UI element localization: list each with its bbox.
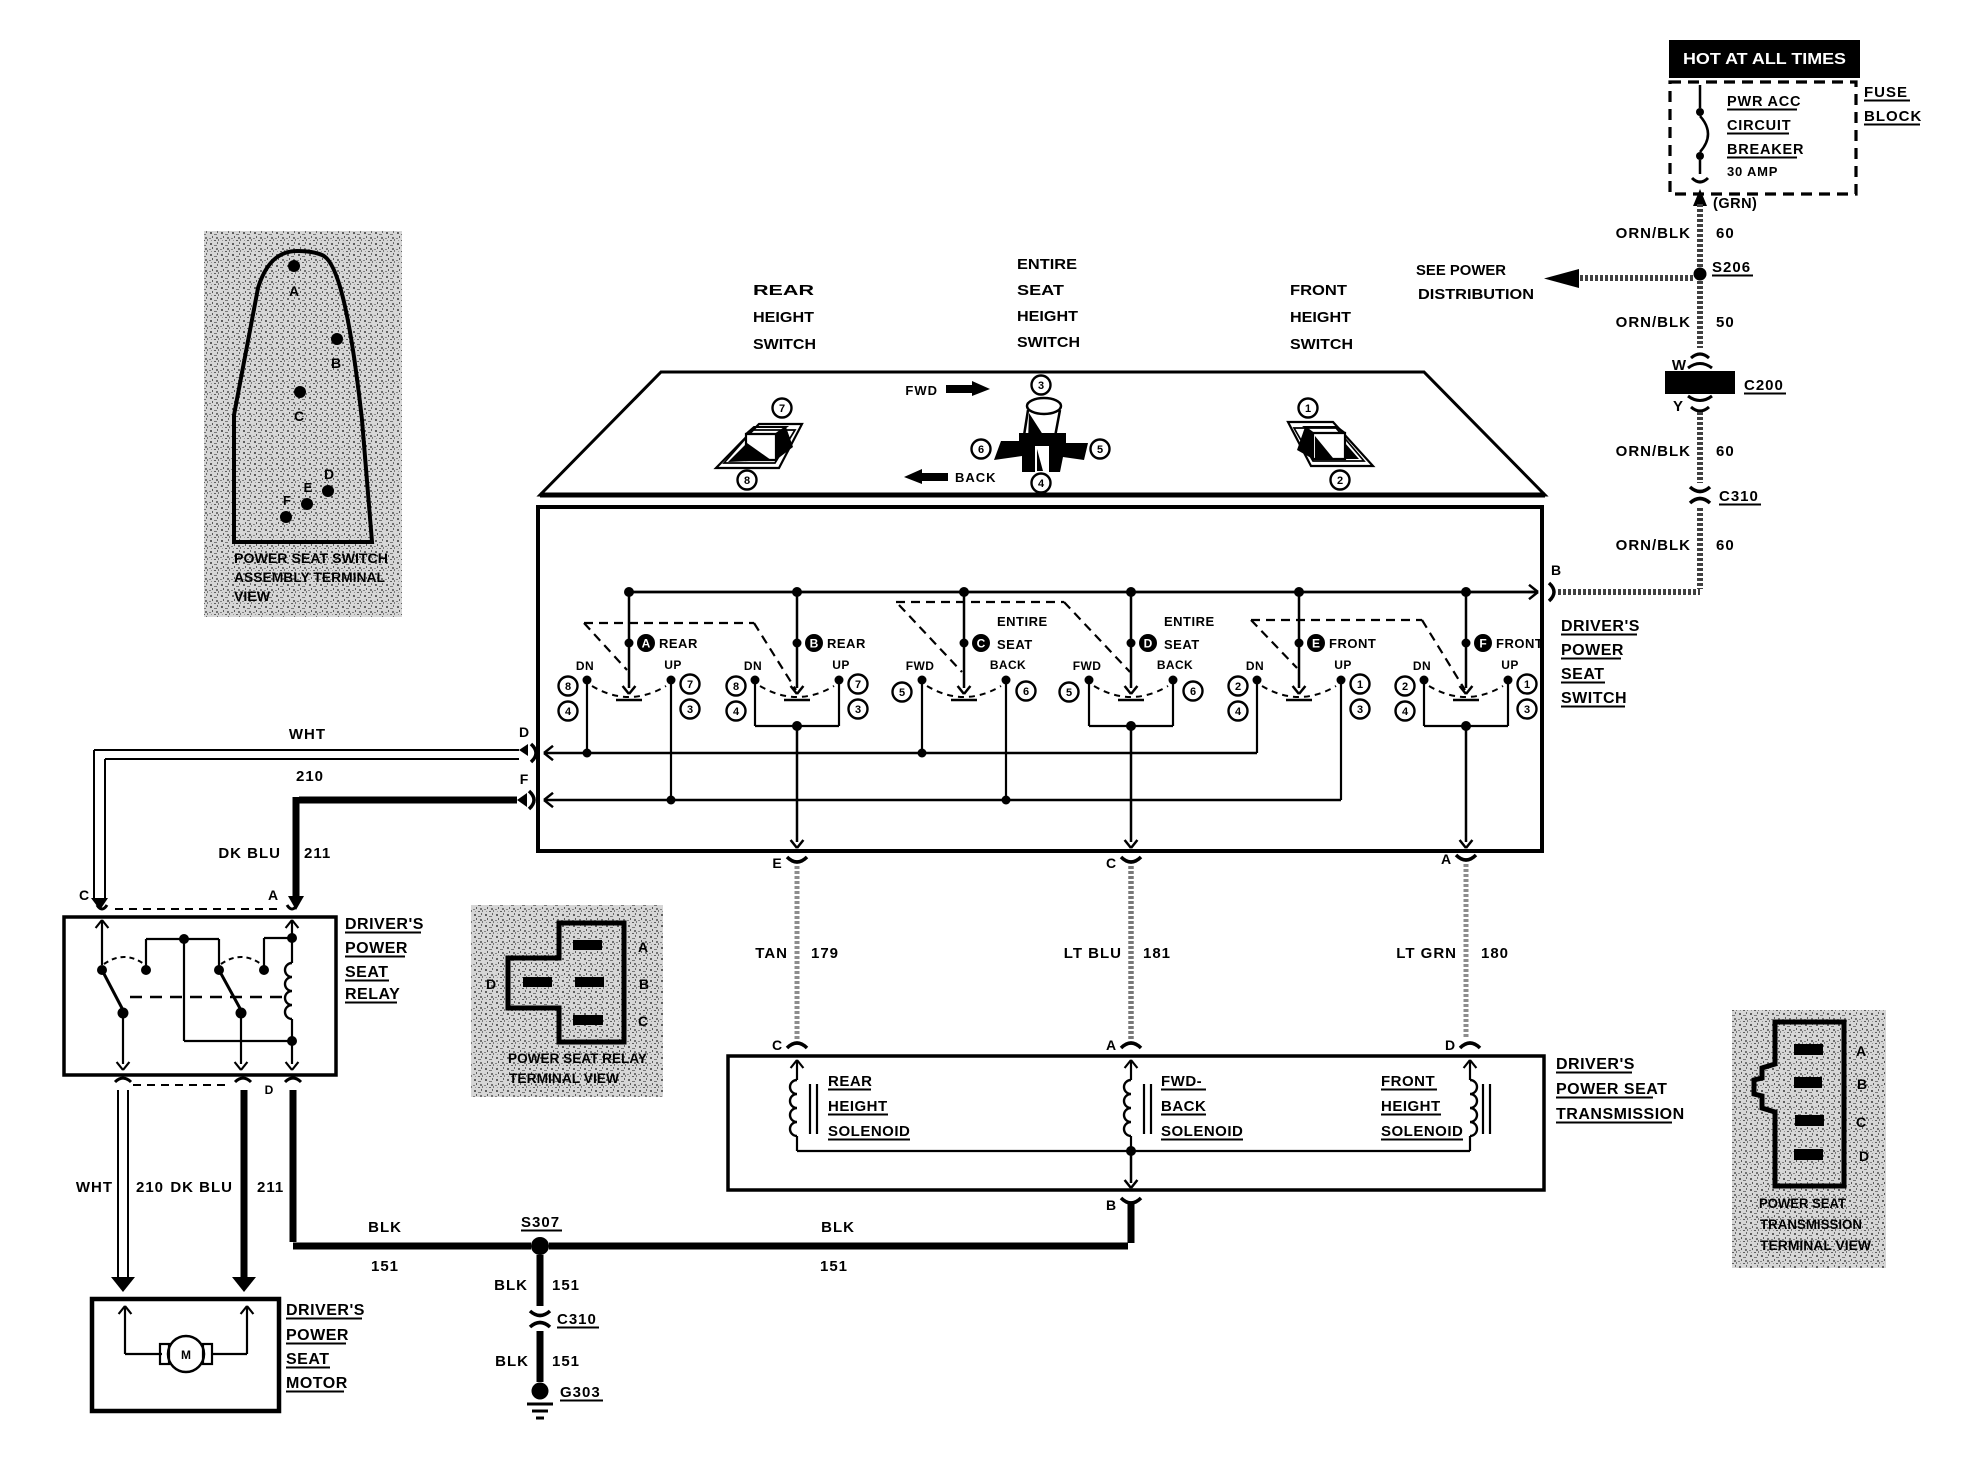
svg-text:3: 3 xyxy=(1357,704,1363,716)
transmission terminal C slot xyxy=(1795,1115,1824,1126)
svg-text:7: 7 xyxy=(779,403,785,415)
svg-text:ORN/BLK: ORN/BLK xyxy=(1616,443,1691,460)
svg-text:SOLENOID: SOLENOID xyxy=(1161,1123,1243,1140)
switch D wiper xyxy=(1126,587,1136,597)
joystick terminal 6 xyxy=(972,440,991,459)
svg-text:FUSE: FUSE xyxy=(1864,84,1908,101)
svg-text:POWER: POWER xyxy=(286,1327,349,1344)
switch E wiper xyxy=(1294,587,1304,597)
connector C310 inline xyxy=(1690,487,1710,492)
svg-text:M: M xyxy=(181,1348,191,1362)
svg-text:F: F xyxy=(520,771,529,787)
svg-text:BLK: BLK xyxy=(368,1219,402,1236)
svg-text:DISTRIBUTION: DISTRIBUTION xyxy=(1418,287,1534,303)
svg-text:REAR: REAR xyxy=(827,636,866,651)
svg-text:D: D xyxy=(1144,637,1153,651)
wire BLK 151 relay to S307 xyxy=(290,1090,297,1242)
transmission terminal A slot xyxy=(1794,1044,1823,1055)
switch A contact wires xyxy=(586,684,588,753)
front height rocker button xyxy=(1288,422,1373,466)
svg-text:2: 2 xyxy=(1337,475,1343,487)
svg-text:SWITCH: SWITCH xyxy=(1561,690,1627,707)
svg-text:C: C xyxy=(772,1037,782,1053)
svg-text:LT BLU: LT BLU xyxy=(1064,945,1122,962)
rear height solenoid xyxy=(791,1060,797,1068)
svg-text:7: 7 xyxy=(687,679,693,691)
splice S307 xyxy=(531,1237,549,1255)
switch output bus to F xyxy=(545,799,1341,802)
svg-text:SOLENOID: SOLENOID xyxy=(1381,1123,1463,1140)
svg-text:DN: DN xyxy=(576,659,594,673)
svg-text:C: C xyxy=(1856,1114,1866,1130)
svg-text:TRANSMISSION: TRANSMISSION xyxy=(1556,1106,1685,1123)
svg-text:C: C xyxy=(1106,855,1116,871)
transmission connector A xyxy=(1121,1043,1141,1048)
svg-text:C: C xyxy=(79,887,89,903)
svg-text:POWER SEAT SWITCH: POWER SEAT SWITCH xyxy=(234,551,388,566)
svg-text:151: 151 xyxy=(552,1353,580,1370)
svg-text:FRONT: FRONT xyxy=(1329,636,1376,651)
relay terminal A slot xyxy=(573,940,602,950)
transmission terminal B slot xyxy=(1794,1077,1822,1088)
relay connector face xyxy=(97,905,107,909)
svg-text:FWD-: FWD- xyxy=(1161,1073,1202,1090)
svg-text:BLK: BLK xyxy=(821,1219,855,1236)
svg-text:BLK: BLK xyxy=(494,1277,528,1294)
svg-text:4: 4 xyxy=(1235,706,1242,718)
svg-text:UP: UP xyxy=(1334,658,1351,672)
svg-text:BLK: BLK xyxy=(495,1353,529,1370)
svg-text:30 AMP: 30 AMP xyxy=(1727,164,1778,179)
switch E contact wires xyxy=(1256,684,1258,753)
wire ORN/BLK 60 C200 to C310 xyxy=(1697,412,1703,483)
switch output bus to D xyxy=(545,752,1257,755)
fuse block dashed box xyxy=(1670,82,1856,194)
switch B contact wires xyxy=(754,684,756,726)
svg-text:151: 151 xyxy=(820,1258,848,1275)
svg-text:ORN/BLK: ORN/BLK xyxy=(1616,314,1691,331)
switch C terminal circles xyxy=(893,683,912,702)
relay terminal C slot xyxy=(573,1015,603,1025)
svg-text:5: 5 xyxy=(1066,687,1072,699)
svg-text:210: 210 xyxy=(296,768,324,785)
terminal A under switch xyxy=(1456,855,1476,860)
relay left armature xyxy=(102,970,124,1012)
svg-text:60: 60 xyxy=(1716,225,1735,242)
svg-text:60: 60 xyxy=(1716,537,1735,554)
svg-text:2: 2 xyxy=(1235,681,1241,693)
svg-text:211: 211 xyxy=(304,845,331,862)
switch C label xyxy=(972,634,990,652)
svg-text:VIEW: VIEW xyxy=(234,589,270,604)
relay contact A input xyxy=(286,920,292,928)
svg-text:WHT: WHT xyxy=(289,726,326,743)
svg-text:BACK: BACK xyxy=(955,470,997,485)
power seat switch assembly terminal view panel xyxy=(204,231,402,617)
feed bus wire xyxy=(629,591,1528,594)
svg-text:ENTIRE: ENTIRE xyxy=(1017,256,1077,273)
svg-text:MOTOR: MOTOR xyxy=(286,1375,348,1392)
svg-text:D: D xyxy=(486,976,496,992)
svg-text:SEAT: SEAT xyxy=(1561,666,1604,683)
svg-text:D: D xyxy=(1859,1148,1869,1164)
svg-text:DRIVER'S: DRIVER'S xyxy=(286,1302,365,1319)
wire DK BLU 211 relay to motor xyxy=(241,1090,248,1277)
svg-text:6: 6 xyxy=(1023,686,1029,698)
svg-text:SEAT: SEAT xyxy=(1017,282,1064,299)
splice S206 xyxy=(1694,268,1707,281)
front height solenoid xyxy=(1464,1060,1470,1068)
svg-text:5: 5 xyxy=(899,687,905,699)
svg-text:B: B xyxy=(1551,562,1561,578)
switch B terminal circles xyxy=(727,677,746,696)
circuit breaker PWR ACC 30A xyxy=(1699,85,1702,108)
svg-text:E: E xyxy=(304,480,313,495)
rocker terminal 1 xyxy=(1299,399,1318,418)
svg-text:WHT: WHT xyxy=(76,1179,113,1196)
svg-text:8: 8 xyxy=(565,681,571,693)
svg-text:60: 60 xyxy=(1716,443,1735,460)
svg-text:B: B xyxy=(331,355,341,371)
drivers power seat relay box xyxy=(64,917,336,1075)
bus exit arrow to terminal B xyxy=(1529,585,1538,592)
wire DK BLU 211 switch F to relay A xyxy=(299,797,517,804)
svg-text:TRANSMISSION: TRANSMISSION xyxy=(1760,1217,1862,1232)
svg-text:B: B xyxy=(810,637,819,651)
svg-text:A: A xyxy=(1856,1043,1866,1059)
svg-text:SEE POWER: SEE POWER xyxy=(1416,263,1507,279)
svg-text:ASSEMBLY TERMINAL: ASSEMBLY TERMINAL xyxy=(234,570,385,585)
switch F contact wires xyxy=(1423,684,1425,726)
switch F terminal circles xyxy=(1396,677,1415,696)
svg-text:D: D xyxy=(265,1083,274,1097)
relay bottom connector face xyxy=(115,1078,131,1082)
svg-text:POWER SEAT: POWER SEAT xyxy=(1759,1196,1847,1211)
drivers power seat motor box xyxy=(92,1299,279,1411)
svg-text:DRIVER'S: DRIVER'S xyxy=(345,916,424,933)
svg-text:TERMINAL VIEW: TERMINAL VIEW xyxy=(1760,1238,1871,1253)
svg-text:PWR ACC: PWR ACC xyxy=(1727,94,1801,110)
svg-text:HEIGHT: HEIGHT xyxy=(1017,308,1078,325)
svg-text:D: D xyxy=(1445,1037,1455,1053)
drivers power seat switch box xyxy=(538,507,1542,851)
svg-text:UP: UP xyxy=(1501,658,1518,672)
relay left switch contacts xyxy=(97,965,107,975)
svg-text:BLOCK: BLOCK xyxy=(1864,108,1922,125)
svg-text:A: A xyxy=(289,283,299,299)
fwd-back solenoid xyxy=(1125,1060,1131,1068)
svg-text:180: 180 xyxy=(1481,945,1509,962)
svg-text:6: 6 xyxy=(1190,686,1196,698)
svg-text:3: 3 xyxy=(1524,704,1530,716)
svg-text:REAR: REAR xyxy=(753,282,814,299)
svg-text:7: 7 xyxy=(855,679,861,691)
svg-text:(GRN): (GRN) xyxy=(1713,196,1757,212)
back direction arrow xyxy=(904,469,948,484)
svg-text:C: C xyxy=(638,1013,648,1029)
svg-text:3: 3 xyxy=(687,704,693,716)
wire WHT 210 relay to motor xyxy=(117,1090,119,1277)
svg-text:BACK: BACK xyxy=(1161,1098,1206,1115)
relay coil xyxy=(291,938,293,963)
joystick terminal 4 xyxy=(1032,474,1051,493)
svg-text:F: F xyxy=(1479,637,1486,651)
svg-text:DN: DN xyxy=(744,659,762,673)
switch B wiper xyxy=(792,587,802,597)
svg-text:REAR: REAR xyxy=(828,1073,873,1090)
svg-text:B: B xyxy=(639,976,649,992)
svg-text:SEAT: SEAT xyxy=(286,1351,329,1368)
switch assembly outline xyxy=(234,251,372,542)
svg-text:E: E xyxy=(1312,637,1320,651)
svg-text:179: 179 xyxy=(811,945,839,962)
relay contact C input xyxy=(96,920,102,928)
svg-text:8: 8 xyxy=(744,475,750,487)
svg-text:A: A xyxy=(642,637,651,651)
svg-text:HEIGHT: HEIGHT xyxy=(753,309,814,326)
svg-text:1: 1 xyxy=(1357,679,1363,691)
svg-text:POWER SEAT RELAY: POWER SEAT RELAY xyxy=(508,1051,647,1066)
transmission connector outline xyxy=(1754,1022,1844,1186)
svg-text:DRIVER'S: DRIVER'S xyxy=(1561,618,1640,635)
rocker terminal 8 xyxy=(738,471,757,490)
svg-text:211: 211 xyxy=(257,1179,284,1196)
relay connector outline xyxy=(508,923,624,1042)
switch C contact wires xyxy=(921,684,923,753)
svg-text:FRONT: FRONT xyxy=(1496,636,1543,651)
svg-text:5: 5 xyxy=(1097,444,1103,456)
svg-text:SEAT: SEAT xyxy=(997,637,1033,652)
rocker terminal 7 xyxy=(773,399,792,418)
switch E terminal circles xyxy=(1229,677,1248,696)
svg-text:FWD: FWD xyxy=(1073,659,1102,673)
svg-text:S307: S307 xyxy=(521,1214,560,1231)
svg-text:DK BLU: DK BLU xyxy=(218,845,281,862)
svg-text:A: A xyxy=(268,887,278,903)
svg-text:151: 151 xyxy=(552,1277,580,1294)
wire ORN/BLK 50 S206 to C200 xyxy=(1697,281,1703,348)
svg-text:DN: DN xyxy=(1413,659,1431,673)
svg-text:4: 4 xyxy=(565,706,572,718)
svg-text:4: 4 xyxy=(733,706,740,718)
svg-text:ENTIRE: ENTIRE xyxy=(997,614,1048,629)
connector C310 ground leg xyxy=(530,1311,550,1316)
entire seat joystick cross xyxy=(994,433,1088,472)
svg-text:C200: C200 xyxy=(1744,377,1784,394)
wire BLK 151 S307 to C310 xyxy=(537,1255,544,1306)
svg-text:50: 50 xyxy=(1716,314,1735,331)
svg-text:RELAY: RELAY xyxy=(345,986,400,1003)
svg-text:FWD: FWD xyxy=(905,383,938,398)
svg-text:ENTIRE: ENTIRE xyxy=(1164,614,1215,629)
svg-text:S206: S206 xyxy=(1712,259,1751,276)
svg-text:A: A xyxy=(638,939,648,955)
switch F wiper xyxy=(1461,587,1471,597)
svg-text:DRIVER'S: DRIVER'S xyxy=(1556,1056,1635,1073)
drivers power seat transmission box xyxy=(728,1056,1544,1190)
svg-text:HEIGHT: HEIGHT xyxy=(1381,1098,1441,1115)
transmission terminal D slot xyxy=(1794,1149,1823,1160)
svg-text:E: E xyxy=(772,855,781,871)
svg-text:BACK: BACK xyxy=(1157,658,1193,672)
relay terminal B slot xyxy=(575,977,604,987)
svg-text:DN: DN xyxy=(1246,659,1264,673)
svg-text:SWITCH: SWITCH xyxy=(1290,336,1353,353)
svg-text:FWD: FWD xyxy=(906,659,935,673)
power seat relay terminal view panel xyxy=(471,905,663,1097)
relay center junction xyxy=(179,934,189,944)
terminal C xyxy=(294,386,306,398)
svg-text:C310: C310 xyxy=(1719,488,1759,505)
wire ORN/BLK 60 fuse to S206 xyxy=(1693,189,1707,206)
switch A terminal circles xyxy=(559,677,578,696)
svg-text:SOLENOID: SOLENOID xyxy=(828,1123,910,1140)
wire LT BLU 181 xyxy=(1128,866,1134,1040)
switch housing top face xyxy=(540,372,1545,495)
terminal E under switch xyxy=(787,857,807,862)
terminal C under switch xyxy=(1121,857,1141,862)
svg-text:SWITCH: SWITCH xyxy=(1017,334,1080,351)
svg-text:Y: Y xyxy=(1673,398,1684,415)
svg-text:210: 210 xyxy=(136,1179,164,1196)
transmission connector D xyxy=(1460,1043,1480,1048)
svg-text:CIRCUIT: CIRCUIT xyxy=(1727,118,1791,134)
svg-text:4: 4 xyxy=(1402,706,1409,718)
svg-text:UP: UP xyxy=(664,658,681,672)
entire seat joystick knob xyxy=(1032,376,1051,395)
wire BLK 151 C310 to G303 xyxy=(537,1331,544,1382)
wire TAN 179 xyxy=(795,866,800,1040)
svg-text:ORN/BLK: ORN/BLK xyxy=(1616,225,1691,242)
svg-text:C: C xyxy=(294,408,304,424)
switch C wiper xyxy=(959,587,969,597)
svg-text:SWITCH: SWITCH xyxy=(753,336,816,353)
motor armature M xyxy=(119,1306,125,1314)
svg-text:D: D xyxy=(519,724,529,740)
relay right switch contacts xyxy=(214,965,224,975)
svg-text:B: B xyxy=(1106,1197,1116,1213)
connector C200 xyxy=(1691,354,1709,358)
svg-text:A: A xyxy=(1441,851,1451,867)
svg-text:D: D xyxy=(324,466,334,482)
svg-text:LT GRN: LT GRN xyxy=(1396,945,1457,962)
switch E label xyxy=(1307,634,1325,652)
power seat transmission terminal view panel xyxy=(1732,1010,1886,1268)
svg-text:POWER SEAT: POWER SEAT xyxy=(1556,1081,1667,1098)
relay terminal D slot xyxy=(523,977,552,987)
svg-text:FRONT: FRONT xyxy=(1290,282,1347,299)
wire to power distribution xyxy=(1580,275,1693,281)
switch A wiper xyxy=(624,587,634,597)
mechanical link C-D xyxy=(896,601,1064,603)
wire WHT 210 switch D to relay C xyxy=(94,749,519,751)
svg-text:181: 181 xyxy=(1143,945,1171,962)
switch F label xyxy=(1474,634,1492,652)
svg-text:HEIGHT: HEIGHT xyxy=(828,1098,888,1115)
svg-text:3: 3 xyxy=(1038,380,1044,392)
svg-text:FRONT: FRONT xyxy=(1381,1073,1435,1090)
svg-text:1: 1 xyxy=(1305,403,1311,415)
svg-text:B: B xyxy=(1857,1076,1867,1092)
svg-text:TERMINAL VIEW: TERMINAL VIEW xyxy=(509,1071,619,1086)
svg-text:C310: C310 xyxy=(557,1311,597,1328)
rear height rocker button xyxy=(716,424,802,468)
svg-text:G303: G303 xyxy=(560,1384,601,1401)
svg-text:4: 4 xyxy=(1038,478,1045,490)
transmission connector C xyxy=(787,1043,807,1048)
svg-text:8: 8 xyxy=(733,681,739,693)
switch A label xyxy=(637,634,655,652)
svg-text:SEAT: SEAT xyxy=(1164,637,1200,652)
wire ORN/BLK 60 C310 to switch B xyxy=(1697,508,1703,589)
svg-text:F: F xyxy=(283,493,291,508)
wire LT GRN 180 xyxy=(1464,864,1469,1038)
terminal A xyxy=(288,260,300,272)
svg-text:HOT AT ALL TIMES: HOT AT ALL TIMES xyxy=(1683,51,1846,68)
svg-text:1: 1 xyxy=(1524,679,1530,691)
switch D label xyxy=(1139,634,1157,652)
mechanical link A-B xyxy=(584,622,754,624)
wht wire arrowheads at switch xyxy=(519,744,528,756)
transmission terminal B xyxy=(1121,1198,1141,1203)
svg-text:POWER: POWER xyxy=(1561,642,1624,659)
svg-text:ORN/BLK: ORN/BLK xyxy=(1616,537,1691,554)
svg-text:SEAT: SEAT xyxy=(345,964,388,981)
svg-text:151: 151 xyxy=(371,1258,399,1275)
svg-text:TAN: TAN xyxy=(755,945,788,962)
svg-text:6: 6 xyxy=(978,444,984,456)
svg-text:3: 3 xyxy=(855,704,861,716)
terminal B xyxy=(331,333,343,345)
switch D contact wires xyxy=(1088,684,1090,726)
svg-text:HEIGHT: HEIGHT xyxy=(1290,309,1351,326)
svg-text:REAR: REAR xyxy=(659,636,698,651)
ground G303 xyxy=(532,1383,549,1400)
wire BLK 151 S307 to transmission B xyxy=(549,1243,1128,1250)
svg-text:DK BLU: DK BLU xyxy=(170,1179,233,1196)
joystick terminal 5 xyxy=(1091,440,1110,459)
solenoid common wire xyxy=(797,1150,1470,1152)
svg-text:2: 2 xyxy=(1402,681,1408,693)
power label HOT AT ALL TIMES xyxy=(1669,40,1860,78)
svg-text:BACK: BACK xyxy=(990,658,1026,672)
svg-text:C: C xyxy=(977,637,986,651)
svg-text:POWER: POWER xyxy=(345,940,408,957)
svg-text:BREAKER: BREAKER xyxy=(1727,142,1804,158)
switch B label xyxy=(805,634,823,652)
relay right armature xyxy=(219,970,242,1012)
svg-text:UP: UP xyxy=(832,658,849,672)
mechanical link E-F xyxy=(1251,619,1422,621)
rocker terminal 2 xyxy=(1331,471,1350,490)
relay mechanical link xyxy=(130,996,287,998)
switch D terminal circles xyxy=(1060,683,1079,702)
svg-text:A: A xyxy=(1106,1037,1116,1053)
